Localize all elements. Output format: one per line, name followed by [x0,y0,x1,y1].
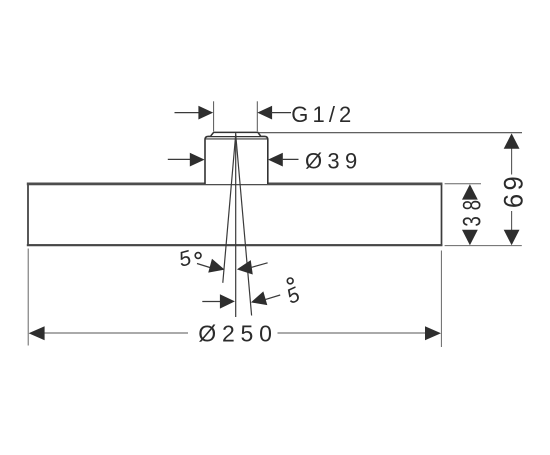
shower plate disc body [27,184,443,245]
angle leader left [197,264,212,269]
dimension D250 extension line left [27,249,29,346]
center line [235,133,237,317]
svg-text:G1/2: G1/2 [291,102,355,127]
dimension G1/2 left tail [175,112,201,114]
dimension D39 right arrowhead [268,153,283,167]
dimension G1/2 right tail [271,112,291,114]
dimension G1/2 right arrowhead [257,106,272,120]
svg-text:Ø39: Ø39 [305,149,362,174]
angle lower-left tail [202,301,221,303]
shared bottom extension line for 38 and 69 [445,245,522,247]
dimension 69 down arrowhead [504,230,520,245]
thread fitting [211,132,261,136]
dimension D250 line right segment [278,332,427,334]
dimension D39 left arrowhead [190,153,205,167]
dimension D250 extension line right [440,251,442,348]
angle leader right [265,295,280,300]
dimension 38 down arrowhead [462,230,478,245]
dimension 38 up arrowhead [462,184,478,199]
dimension D250 line left segment [42,332,188,334]
dimension 38 top extension line [445,183,481,185]
angle opposing arrowhead pointing left [236,260,253,276]
dimension G1/2 extension line left [213,101,215,131]
dimension D250 right arrowhead [425,326,441,340]
svg-text:38: 38 [458,194,486,227]
dimension G1/2 extension line right [256,101,258,131]
angle label left degree circle [195,253,201,259]
dimension D39 left tail [168,158,193,160]
angle opposing tail [250,263,267,268]
angle lower-left arrowhead pointing right [220,294,235,308]
dimension D39 right tail [282,158,299,160]
dimension 69 line upper segment [511,147,513,175]
dimension D250 left arrowhead [29,326,45,340]
right spray angle line [236,135,252,316]
angle left arrowhead pointing right [208,259,226,277]
angle label right degree circle [287,278,293,284]
svg-text:Ø250: Ø250 [198,321,277,347]
dimension 69 line lower segment [511,211,513,231]
left spray angle line [223,135,236,283]
dimension 69 top extension line [259,132,523,134]
dimension 69 up arrowhead [504,133,520,148]
angle lower-right arrowhead pointing left [249,291,267,309]
dimension G1/2 left arrowhead [198,106,213,120]
svg-text:69: 69 [498,173,529,208]
connector pipe [205,136,268,184]
